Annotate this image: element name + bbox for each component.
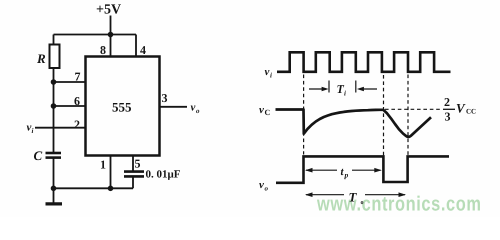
svg-text:4: 4 xyxy=(140,43,146,57)
svg-text:v: v xyxy=(259,104,264,116)
svg-text:7: 7 xyxy=(75,70,81,84)
svg-text:v: v xyxy=(265,66,270,78)
svg-text:6: 6 xyxy=(74,94,80,108)
svg-text:V: V xyxy=(456,101,466,116)
svg-text:o: o xyxy=(265,185,269,193)
svg-text:R: R xyxy=(36,51,46,66)
svg-text:v: v xyxy=(259,179,264,191)
svg-text:C: C xyxy=(34,148,43,163)
svg-text:2: 2 xyxy=(444,95,450,109)
svg-text:i: i xyxy=(270,72,272,80)
svg-text:o: o xyxy=(196,107,200,115)
svg-text:C: C xyxy=(265,108,271,117)
svg-text:555: 555 xyxy=(112,100,132,115)
svg-text:p: p xyxy=(344,171,349,180)
svg-text:i: i xyxy=(344,90,346,98)
svg-text:5: 5 xyxy=(135,157,141,171)
svg-text:T: T xyxy=(349,190,358,205)
svg-text:2: 2 xyxy=(74,117,80,131)
svg-text:v: v xyxy=(191,102,196,114)
svg-text:0. 01μF: 0. 01μF xyxy=(146,169,181,181)
svg-text:+5V: +5V xyxy=(96,3,121,18)
svg-text:CC: CC xyxy=(466,108,476,116)
svg-text:3: 3 xyxy=(445,110,451,124)
svg-text:o: o xyxy=(361,200,364,206)
svg-text:8: 8 xyxy=(100,43,106,57)
svg-text:3: 3 xyxy=(162,91,168,105)
svg-text:1: 1 xyxy=(100,157,106,171)
svg-text:i: i xyxy=(32,127,34,135)
